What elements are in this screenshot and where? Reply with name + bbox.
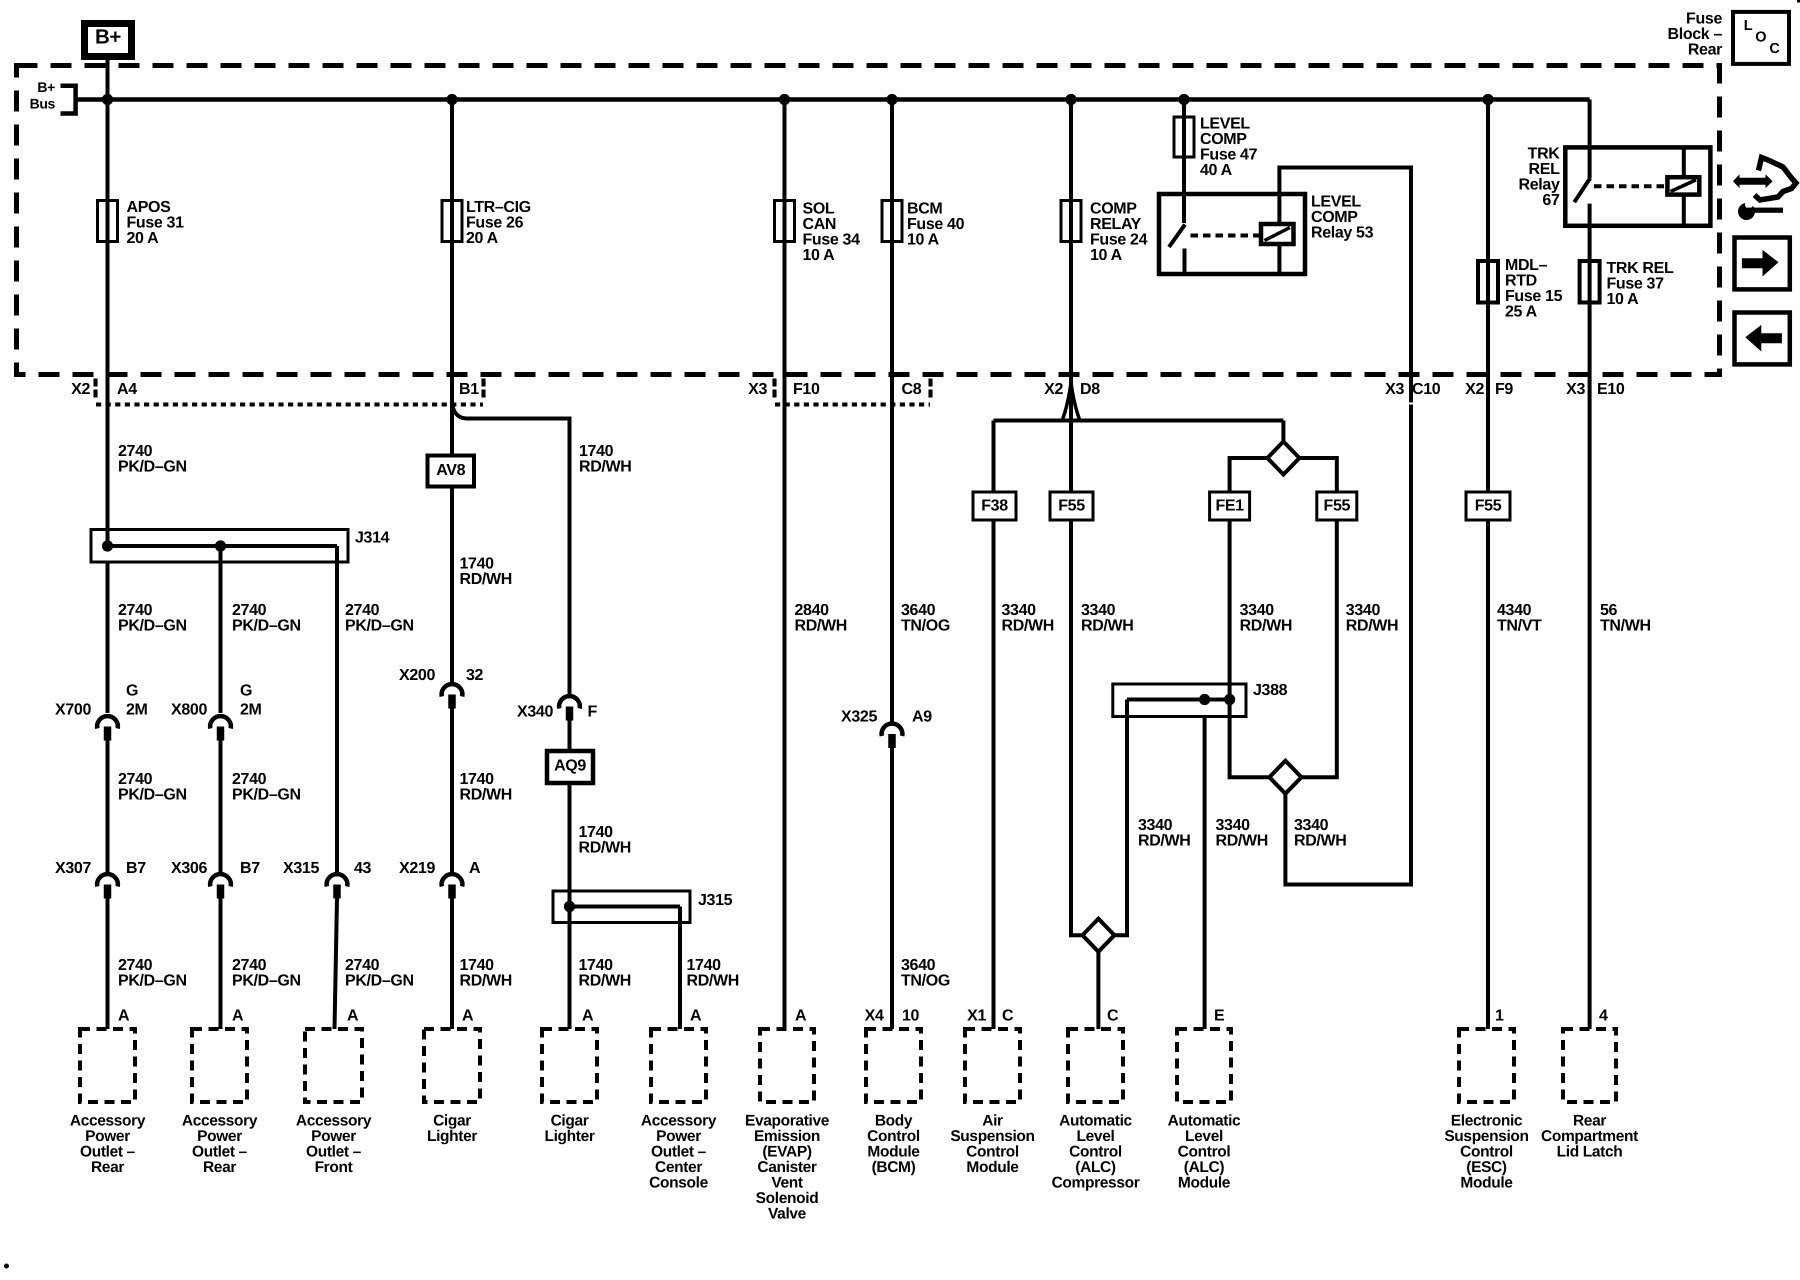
wire X306 to outlet rear 2 (2740 PK/D-GN)	[219, 899, 223, 1030]
svg-text:Rear: Rear	[203, 1159, 236, 1176]
svg-text:Bus: Bus	[30, 95, 56, 111]
wire X700 to X307 (2740 PK/D-GN)	[106, 741, 110, 873]
svg-text:(EVAP): (EVAP)	[762, 1143, 811, 1160]
svg-text:PK/D–GN: PK/D–GN	[345, 973, 414, 990]
svg-text:Power: Power	[85, 1128, 130, 1145]
relay 67 switch arm	[1574, 178, 1590, 202]
svg-text:Canister: Canister	[757, 1159, 817, 1176]
svg-text:25 A: 25 A	[1505, 304, 1538, 321]
svg-text:10 A: 10 A	[907, 232, 940, 249]
svg-text:F55: F55	[1058, 498, 1085, 515]
svg-text:RD/WH: RD/WH	[460, 973, 512, 990]
svg-text:C10: C10	[1412, 381, 1441, 398]
svg-text:X325: X325	[841, 709, 877, 726]
svg-text:Center: Center	[655, 1159, 702, 1176]
svg-text:F9: F9	[1495, 381, 1513, 398]
svg-text:X340: X340	[517, 704, 553, 721]
wire bus to BCM fuse to X3-C8	[890, 100, 894, 405]
J314 internal bus	[106, 544, 338, 548]
svg-text:RD/WH: RD/WH	[1138, 833, 1190, 850]
bus junction node APOS tap	[102, 94, 113, 105]
svg-text:J388: J388	[1253, 682, 1288, 699]
svg-text:F38: F38	[981, 498, 1008, 515]
wire X800 to X306 (2740 PK/D-GN)	[219, 741, 223, 873]
wire X219 to cigar lighter 1 (1740 RD/WH)	[450, 899, 454, 1030]
component accessory power outlet - center console	[651, 1029, 706, 1102]
inline connector X325 pin A9	[882, 724, 903, 736]
svg-text:1740: 1740	[687, 957, 722, 974]
wire AQ9 to J315 (1740 RD/WH)	[568, 783, 572, 923]
relay 67 coil wire	[1682, 147, 1686, 225]
svg-text:Outlet –: Outlet –	[306, 1143, 362, 1160]
svg-text:Module: Module	[966, 1159, 1019, 1176]
svg-text:B7: B7	[240, 860, 260, 877]
fuse block node F55 (compressor)	[1050, 492, 1093, 520]
component rear compartment lid latch	[1563, 1029, 1616, 1102]
svg-text:A: A	[690, 1008, 702, 1025]
svg-text:B7: B7	[126, 860, 146, 877]
svg-text:LTR–CIG: LTR–CIG	[466, 199, 531, 216]
wire J314 to X700 (2740 PK/D-GN)	[106, 562, 110, 713]
svg-text:CAN: CAN	[803, 216, 837, 233]
svg-text:3340: 3340	[1240, 602, 1275, 619]
svg-text:B+: B+	[95, 25, 121, 48]
component cigar lighter 2	[542, 1029, 597, 1102]
svg-text:A: A	[462, 1008, 474, 1025]
svg-text:E10: E10	[1597, 381, 1625, 398]
svg-text:10: 10	[902, 1008, 920, 1025]
svg-text:1740: 1740	[460, 556, 495, 573]
svg-text:1740: 1740	[579, 824, 614, 841]
J315 junction node	[564, 901, 575, 912]
fuse block node F38	[973, 492, 1016, 520]
inline connector X306 pin B7	[210, 874, 231, 886]
component EVAP canister vent solenoid valve	[760, 1029, 814, 1102]
svg-text:X2: X2	[1465, 381, 1484, 398]
svg-text:(ALC): (ALC)	[1075, 1159, 1116, 1176]
svg-text:2740: 2740	[345, 957, 380, 974]
wire B1 to AV8 (cigar lighter feed)	[450, 398, 454, 456]
wire F55 to bottom diamond (3340 RD/WH)	[1301, 520, 1336, 777]
svg-text:TN/VT: TN/VT	[1497, 618, 1542, 635]
svg-text:C: C	[1107, 1008, 1119, 1025]
fuse block - rear dashed enclosure	[17, 66, 1720, 375]
svg-text:Fuse 47: Fuse 47	[1200, 147, 1258, 164]
svg-text:Front: Front	[315, 1159, 353, 1176]
svg-text:LEVEL: LEVEL	[1200, 116, 1250, 133]
svg-text:C: C	[1002, 1008, 1014, 1025]
svg-text:AQ9: AQ9	[554, 758, 586, 775]
svg-text:3340: 3340	[1294, 817, 1329, 834]
svg-text:Evaporative: Evaporative	[745, 1112, 830, 1129]
svg-text:Suspension: Suspension	[1444, 1128, 1528, 1145]
svg-text:Control: Control	[1460, 1143, 1513, 1160]
svg-text:Power: Power	[311, 1128, 356, 1145]
J388 junction node 2	[1224, 694, 1235, 705]
svg-text:4340: 4340	[1497, 602, 1532, 619]
svg-text:F55: F55	[1324, 498, 1351, 515]
fuse block node F55 (ESC)	[1466, 492, 1510, 520]
svg-text:Valve: Valve	[768, 1205, 807, 1222]
svg-text:3340: 3340	[1081, 602, 1116, 619]
svg-text:Fuse 24: Fuse 24	[1090, 232, 1148, 249]
svg-text:X700: X700	[55, 702, 91, 719]
svg-text:Outlet –: Outlet –	[80, 1143, 136, 1160]
svg-text:A: A	[347, 1008, 359, 1025]
connector AV8 box	[428, 456, 475, 487]
wire J314 to X800 (2740 PK/D-GN)	[219, 546, 223, 713]
svg-text:RD/WH: RD/WH	[1002, 618, 1054, 635]
svg-text:A9: A9	[912, 709, 932, 726]
svg-text:TN/OG: TN/OG	[901, 618, 950, 635]
svg-text:Suspension: Suspension	[950, 1128, 1034, 1145]
connector X2 dotted boundary	[93, 379, 97, 399]
svg-text:Module: Module	[867, 1143, 920, 1160]
inline connector X340 pin F	[559, 696, 580, 708]
inline connector X200 pin 32	[442, 684, 463, 696]
svg-text:1740: 1740	[579, 443, 614, 460]
relay 67 coil	[1667, 177, 1699, 194]
svg-text:PK/D–GN: PK/D–GN	[118, 787, 187, 804]
inline connector X307 pin B7	[97, 874, 118, 886]
svg-text:Vent: Vent	[771, 1174, 803, 1191]
svg-text:COMP: COMP	[1090, 201, 1137, 218]
wire bus to APOS fuse to X2-A4	[106, 100, 110, 405]
svg-text:3340: 3340	[1138, 817, 1173, 834]
wire bus to LEVEL COMP fuse to relay 53	[1182, 100, 1186, 224]
wire D8 to F55	[1069, 242, 1073, 493]
svg-text:X3: X3	[1385, 381, 1404, 398]
svg-text:TRK REL: TRK REL	[1607, 260, 1674, 277]
bus junction node SOL CAN tap	[779, 94, 790, 105]
svg-text:AV8: AV8	[436, 462, 465, 479]
splice J314 box	[91, 530, 348, 563]
wire J315 to cigar lighter 2 (1740 RD/WH)	[568, 923, 572, 1030]
svg-text:RD/WH: RD/WH	[1346, 618, 1398, 635]
svg-text:Fuse: Fuse	[1686, 11, 1722, 28]
svg-text:Compartment: Compartment	[1541, 1128, 1638, 1145]
svg-text:SOL: SOL	[803, 201, 835, 218]
fuse SOL CAN Fuse 34 10A	[775, 201, 795, 242]
svg-text:RD/WH: RD/WH	[1294, 833, 1346, 850]
svg-text:Fuse 37: Fuse 37	[1607, 276, 1665, 293]
svg-text:F10: F10	[793, 381, 820, 398]
relay 67 actuation dashed link	[1594, 184, 1666, 188]
svg-text:Fuse 26: Fuse 26	[466, 215, 524, 232]
component ALC module	[1177, 1029, 1231, 1102]
svg-text:3340: 3340	[1216, 817, 1251, 834]
inline connector X700 pin G/2M	[97, 716, 118, 728]
svg-text:LEVEL: LEVEL	[1311, 194, 1361, 211]
svg-text:43: 43	[354, 860, 372, 877]
svg-text:X307: X307	[55, 860, 91, 877]
relay 53 actuation dashed link	[1191, 234, 1260, 238]
relay 53 coil wire	[1277, 194, 1281, 274]
svg-text:Accessory: Accessory	[641, 1112, 717, 1129]
svg-text:RD/WH: RD/WH	[579, 459, 631, 476]
svg-text:2740: 2740	[232, 771, 267, 788]
svg-text:2840: 2840	[795, 602, 830, 619]
wire J388 to ALC diamond (3340 RD/WH)	[1114, 717, 1127, 936]
svg-text:APOS: APOS	[127, 199, 172, 216]
component ALC compressor	[1068, 1029, 1123, 1102]
svg-text:TN/OG: TN/OG	[901, 973, 950, 990]
svg-text:PK/D–GN: PK/D–GN	[118, 973, 187, 990]
svg-text:X800: X800	[171, 702, 207, 719]
svg-text:Control: Control	[1069, 1143, 1122, 1160]
svg-text:MDL–: MDL–	[1505, 257, 1548, 274]
svg-text:Air: Air	[982, 1112, 1003, 1129]
svg-text:X3: X3	[1566, 381, 1585, 398]
svg-text:Block –: Block –	[1668, 26, 1723, 43]
wire bus to LTR-CIG fuse to X2-B1	[450, 100, 454, 399]
svg-text:Lid Latch: Lid Latch	[1557, 1143, 1623, 1160]
wire diamond to ALC compressor	[1096, 951, 1100, 1029]
svg-text:32: 32	[466, 667, 484, 684]
fuse LEVEL COMP Fuse 47 40A	[1174, 117, 1194, 157]
page mark	[4, 1264, 9, 1269]
svg-text:RD/WH: RD/WH	[795, 618, 847, 635]
svg-text:D8: D8	[1080, 381, 1100, 398]
svg-text:RD/WH: RD/WH	[1216, 833, 1268, 850]
wire F55 to ESC module (4340 TN/VT)	[1486, 520, 1490, 1029]
svg-text:(ESC): (ESC)	[1466, 1159, 1507, 1176]
svg-text:Level: Level	[1185, 1128, 1223, 1145]
svg-text:RD/WH: RD/WH	[460, 571, 512, 588]
wire J315 to outlet center console (1740 RD/WH)	[678, 923, 682, 1030]
J314 junction node 2	[215, 540, 226, 551]
svg-text:3640: 3640	[901, 957, 936, 974]
svg-text:RD/WH: RD/WH	[687, 973, 739, 990]
svg-text:1740: 1740	[579, 957, 614, 974]
svg-text:RD/WH: RD/WH	[579, 973, 631, 990]
svg-text:C8: C8	[902, 381, 922, 398]
svg-text:Cigar: Cigar	[551, 1112, 589, 1129]
navigation icon arrow outline swirl	[1755, 158, 1797, 201]
svg-text:O: O	[1755, 30, 1766, 46]
navigation right-arrow box	[1735, 238, 1790, 290]
svg-text:X2: X2	[1044, 381, 1063, 398]
wire E10 to lid latch (56 TN/WH)	[1588, 405, 1592, 1030]
wire top diamond feed	[1281, 421, 1285, 442]
bus junction node BCM tap	[886, 94, 897, 105]
svg-text:A: A	[469, 860, 481, 877]
svg-text:X306: X306	[171, 860, 207, 877]
svg-text:TRK: TRK	[1528, 146, 1561, 163]
svg-text:2740: 2740	[118, 443, 153, 460]
svg-text:10 A: 10 A	[1607, 291, 1640, 308]
wire bus to COMP RELAY fuse to X2-D8	[1069, 100, 1073, 493]
component air suspension control module	[965, 1029, 1020, 1102]
inline connector X800 pin G/2M	[210, 716, 231, 728]
svg-text:2M: 2M	[240, 702, 262, 719]
svg-text:Lighter: Lighter	[544, 1128, 594, 1145]
svg-text:REL: REL	[1529, 161, 1561, 178]
svg-text:Module: Module	[1178, 1174, 1231, 1191]
J388 junction node 1	[1199, 694, 1210, 705]
relay 53 switch lower stub	[1183, 249, 1187, 275]
wire F55 to ALC diamond (3340 RD/WH)	[1071, 520, 1083, 935]
wire bus into relay 67 switch	[1588, 100, 1592, 179]
wire branch B1 to center console	[452, 402, 570, 694]
fuse COMP RELAY Fuse 24 10A	[1061, 201, 1081, 242]
svg-text:F55: F55	[1475, 498, 1502, 515]
wire X325 to BCM (3640 TN/OG)	[890, 748, 894, 1029]
wire X200 to X219 (1740 RD/WH)	[450, 709, 454, 873]
svg-text:RTD: RTD	[1505, 273, 1537, 290]
wire F9 to F55 node	[1486, 405, 1490, 493]
svg-text:Body: Body	[875, 1112, 913, 1129]
svg-text:A: A	[232, 1008, 244, 1025]
svg-text:Compressor: Compressor	[1052, 1174, 1140, 1191]
wire D8 to F38	[992, 421, 996, 493]
svg-text:1: 1	[1495, 1008, 1504, 1025]
wire bus to SOL CAN fuse to X3-F10	[783, 100, 787, 405]
fuse APOS Fuse 31 20A	[98, 201, 118, 242]
svg-text:2740: 2740	[118, 771, 153, 788]
current split diamond (top)	[1267, 442, 1299, 475]
relay 53 coil	[1261, 224, 1294, 244]
inline connector X219 pin A	[442, 874, 463, 886]
component accessory power outlet - rear 1	[80, 1029, 135, 1102]
svg-text:Emission: Emission	[754, 1128, 820, 1145]
svg-text:Rear: Rear	[1573, 1112, 1606, 1129]
svg-text:X200: X200	[399, 667, 435, 684]
wire diamond to F55 drop	[1299, 458, 1336, 492]
B+ bus bracket	[61, 86, 76, 114]
connector AQ9 box	[547, 751, 593, 783]
svg-text:C: C	[1769, 41, 1780, 57]
wire C8 to X325 (3640 TN/OG)	[890, 405, 894, 722]
relay 67 switch lower stub to fuse 37	[1588, 204, 1592, 405]
svg-text:A: A	[582, 1008, 594, 1025]
component cigar lighter 1	[424, 1029, 480, 1102]
svg-text:Lighter: Lighter	[427, 1128, 477, 1145]
svg-text:Console: Console	[649, 1174, 708, 1191]
LOC reference box	[1733, 12, 1789, 64]
navigation icon double arrow	[1733, 174, 1773, 188]
fuse TRK REL Fuse 37 10A	[1580, 261, 1600, 303]
wire F38 to air suspension module (3340 RD/WH)	[992, 520, 996, 1029]
svg-text:RD/WH: RD/WH	[1240, 618, 1292, 635]
bus junction node LEVEL COMP tap	[1178, 94, 1189, 105]
svg-text:A: A	[795, 1008, 807, 1025]
svg-text:67: 67	[1542, 192, 1560, 209]
wire D8 fan-out horizontal	[994, 419, 1284, 423]
svg-text:X1: X1	[967, 1008, 986, 1025]
svg-text:2740: 2740	[232, 602, 267, 619]
svg-text:Rear: Rear	[1688, 42, 1722, 59]
B+ power terminal	[85, 24, 132, 57]
svg-text:Accessory: Accessory	[182, 1112, 258, 1129]
svg-text:X3: X3	[748, 381, 767, 398]
svg-text:(BCM): (BCM)	[872, 1159, 916, 1176]
component body control module	[866, 1029, 921, 1102]
bus junction node LTR-CIG tap	[446, 94, 457, 105]
J315 internal bus	[570, 905, 681, 909]
svg-text:3640: 3640	[901, 602, 936, 619]
component accessory power outlet - rear 2	[192, 1029, 247, 1102]
svg-text:BCM: BCM	[907, 201, 942, 218]
svg-text:G: G	[240, 683, 252, 700]
fuse block node FE1	[1210, 492, 1250, 520]
page corner mark	[1797, 0, 1800, 3]
current merge diamond (ALC compressor)	[1082, 919, 1114, 952]
svg-text:Fuse 15: Fuse 15	[1505, 288, 1563, 305]
svg-text:Control: Control	[1178, 1143, 1231, 1160]
wire relay 53 coil to X3-C10	[1279, 168, 1411, 403]
svg-text:L: L	[1744, 18, 1753, 34]
svg-text:20 A: 20 A	[127, 230, 160, 247]
svg-text:Outlet –: Outlet –	[651, 1143, 707, 1160]
svg-text:A: A	[118, 1008, 130, 1025]
wire X307 to outlet rear 1 (2740 PK/D-GN)	[106, 899, 110, 1030]
fuse LTR-CIG Fuse 26 20A	[442, 201, 462, 242]
current merge diamond (bottom)	[1269, 761, 1301, 794]
svg-text:Control: Control	[867, 1128, 920, 1145]
svg-text:X2: X2	[71, 381, 90, 398]
splice J315 box	[553, 891, 690, 923]
svg-text:Rear: Rear	[91, 1159, 124, 1176]
fuse BCM Fuse 40 10A	[882, 201, 902, 242]
D8 teepee right flare	[1071, 383, 1080, 420]
D8 teepee left flare	[1063, 383, 1072, 420]
component accessory power outlet - front	[305, 1029, 362, 1102]
svg-text:40 A: 40 A	[1200, 162, 1233, 179]
svg-text:2740: 2740	[232, 957, 267, 974]
wire B+ terminal to bus	[106, 56, 110, 100]
svg-text:X315: X315	[283, 860, 319, 877]
svg-text:RELAY: RELAY	[1090, 216, 1142, 233]
wire bottom diamond to C10 riser (3340 RD/WH)	[1285, 405, 1411, 885]
svg-text:Control: Control	[966, 1143, 1019, 1160]
svg-text:PK/D–GN: PK/D–GN	[345, 618, 414, 635]
svg-text:Accessory: Accessory	[70, 1112, 146, 1129]
svg-text:Power: Power	[197, 1128, 242, 1145]
svg-text:Fuse 31: Fuse 31	[127, 215, 185, 232]
svg-text:2740: 2740	[345, 602, 380, 619]
svg-text:G: G	[126, 683, 138, 700]
navigation icon lower arrow	[1738, 203, 1755, 220]
svg-text:Relay 53: Relay 53	[1311, 225, 1374, 242]
svg-text:X4: X4	[865, 1008, 884, 1025]
svg-text:E: E	[1214, 1008, 1225, 1025]
svg-text:X219: X219	[399, 860, 435, 877]
svg-text:F: F	[588, 704, 598, 721]
svg-text:PK/D–GN: PK/D–GN	[232, 618, 301, 635]
bus junction node MDL-RTD tap	[1482, 94, 1493, 105]
svg-text:COMP: COMP	[1200, 131, 1247, 148]
svg-text:10 A: 10 A	[1090, 247, 1123, 264]
svg-text:PK/D–GN: PK/D–GN	[232, 973, 301, 990]
svg-text:2M: 2M	[126, 702, 148, 719]
svg-text:RD/WH: RD/WH	[579, 840, 631, 857]
wire FE1 through J388 to bottom diamond (3340 RD/WH)	[1230, 520, 1270, 777]
wire J314 to X315 (2740 PK/D-GN)	[335, 562, 339, 873]
svg-text:B1: B1	[459, 381, 479, 398]
svg-text:FE1: FE1	[1215, 498, 1244, 515]
svg-text:PK/D–GN: PK/D–GN	[118, 459, 187, 476]
svg-text:2740: 2740	[118, 602, 153, 619]
wire F10 to EVAP valve (2840 RD/WH)	[783, 405, 787, 1030]
svg-text:Fuse 40: Fuse 40	[907, 216, 965, 233]
wire AV8 to X200 (1740 RD/WH)	[450, 487, 454, 684]
svg-text:Accessory: Accessory	[296, 1112, 372, 1129]
relay LEVEL COMP Relay 53 box	[1159, 194, 1305, 274]
svg-text:Cigar: Cigar	[433, 1112, 471, 1129]
svg-text:Automatic: Automatic	[1168, 1112, 1241, 1129]
svg-text:Electronic: Electronic	[1451, 1112, 1523, 1129]
